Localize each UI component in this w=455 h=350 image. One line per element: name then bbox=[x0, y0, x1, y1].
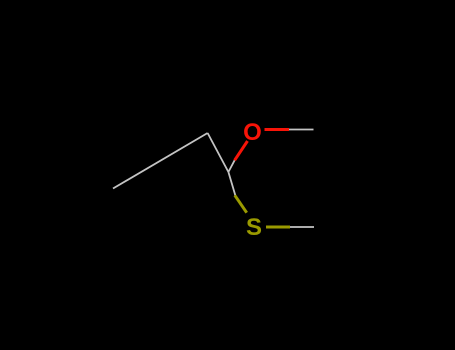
svg-text:S: S bbox=[246, 214, 262, 241]
svg-text:O: O bbox=[243, 119, 262, 146]
